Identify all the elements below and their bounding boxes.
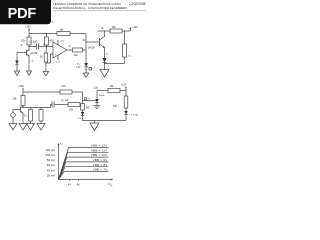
svg-text:VBB = 11V: VBB = 11V — [91, 148, 108, 152]
svg-text:C₂ 1µF: C₂ 1µF — [62, 99, 70, 102]
svg-text:↓I₂: ↓I₂ — [128, 55, 131, 58]
svg-text:100 mA: 100 mA — [45, 153, 55, 157]
svg-text:+12V: +12V — [121, 83, 127, 86]
svg-text:VBB = 7V: VBB = 7V — [93, 168, 108, 172]
svg-text:100µF: 100µF — [99, 95, 106, 97]
svg-text:L₁: L₁ — [106, 53, 108, 56]
svg-text:PDF: PDF — [8, 6, 37, 22]
svg-text:7,5V: 7,5V — [76, 67, 81, 69]
svg-text:D: D — [83, 38, 85, 42]
svg-text:40 mA: 40 mA — [47, 168, 55, 172]
svg-text:E: E — [102, 26, 104, 30]
svg-text:60 mA: 60 mA — [47, 163, 55, 167]
svg-text:12/02/2008: 12/02/2008 — [129, 2, 146, 6]
svg-text:8V: 8V — [77, 182, 80, 186]
svg-text:A: A — [21, 43, 23, 47]
svg-text:−: − — [54, 45, 56, 49]
svg-text:80 mA: 80 mA — [47, 158, 55, 162]
svg-text:VBB = 12V: VBB = 12V — [91, 144, 108, 148]
svg-text:−12V: −12V — [55, 62, 61, 64]
svg-text:C₁ 1µF: C₁ 1µF — [30, 41, 38, 44]
svg-text:VBB = 9V: VBB = 9V — [93, 158, 108, 162]
svg-text:+12V: +12V — [18, 85, 24, 88]
svg-text:+: + — [54, 53, 56, 57]
svg-text:VBB = 8V: VBB = 8V — [93, 163, 108, 167]
svg-text:+12V: +12V — [132, 26, 138, 29]
svg-text:1.: 1. — [52, 20, 55, 24]
svg-text:β=100: β=100 — [31, 52, 38, 55]
svg-text:120 mA: 120 mA — [45, 148, 55, 152]
svg-text:I₄ 1,3 mA: I₄ 1,3 mA — [129, 114, 139, 117]
svg-text:V₂: V₂ — [77, 64, 80, 66]
svg-text:C: C — [69, 44, 71, 48]
svg-text:TÉCNICA SUPERIOR DE INGENIERÍA: TÉCNICA SUPERIOR DE INGENIERÍA DE GIJÓN — [53, 1, 121, 6]
svg-text:20 mA: 20 mA — [47, 174, 55, 178]
svg-text:+12V: +12V — [25, 25, 31, 28]
svg-text:↓I₁: ↓I₁ — [31, 60, 34, 63]
svg-text:+12V: +12V — [59, 41, 65, 43]
svg-text:4V: 4V — [68, 182, 71, 186]
svg-text:VBB = 10V: VBB = 10V — [91, 153, 108, 157]
svg-text:β=100: β=100 — [88, 47, 95, 50]
